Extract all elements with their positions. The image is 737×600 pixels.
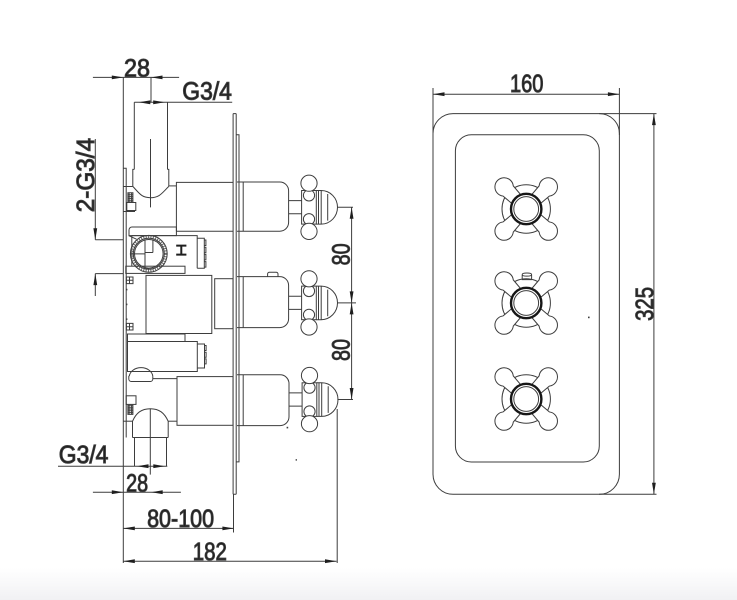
mid body top — [132, 236, 197, 269]
mid connector ridges — [197, 238, 206, 268]
middle handle dome — [316, 286, 337, 320]
dim 80 vertical line — [351, 207, 353, 399]
mid bracket box — [129, 227, 176, 236]
valve circle slot — [130, 240, 153, 269]
bracket A1 — [127, 203, 136, 211]
circle corner seam — [129, 236, 137, 240]
bolt B1 — [126, 277, 133, 284]
top handle ball lower — [301, 223, 317, 239]
bottom outlet pipe — [135, 438, 167, 467]
handle bottom — [491, 364, 561, 434]
top handle stem — [289, 201, 302, 214]
svg-text:80: 80 — [328, 243, 356, 265]
bottom handle ball inner upper — [304, 382, 315, 393]
dim G3/4 top line — [134, 101, 232, 103]
lower unit box — [128, 342, 198, 372]
dome bracket — [129, 368, 153, 382]
top handle dome — [316, 191, 337, 225]
wall line — [122, 77, 124, 563]
wall inner line — [123, 168, 126, 437]
handle middle — [491, 268, 561, 338]
top cartridge inner block — [176, 182, 233, 231]
dim 80-100 line — [123, 494, 234, 532]
middle handle ball inner upper — [303, 285, 314, 296]
valve circle ring — [133, 238, 164, 269]
dome bracket link — [153, 378, 177, 380]
svg-text:160: 160 — [510, 70, 544, 98]
dim 28 bottom line — [93, 491, 181, 493]
bottom elbow bell — [133, 409, 169, 438]
H marking — [176, 246, 186, 255]
middle tab — [268, 272, 278, 276]
top pipe centerline — [150, 77, 153, 207]
top elbow — [133, 169, 169, 197]
faceplate inner panel — [455, 135, 599, 462]
svg-text:80-100: 80-100 — [147, 505, 214, 533]
valve circle hatch band — [132, 237, 166, 271]
middle big box — [146, 275, 212, 333]
top cartridge body — [237, 182, 289, 231]
bottom body seam — [242, 375, 244, 426]
middle handle ball upper — [301, 271, 317, 287]
bottom handle ball upper — [301, 367, 317, 383]
bottom handle ball lower — [301, 416, 317, 432]
valve circle ring inner — [135, 240, 164, 269]
middle handle plate — [302, 286, 317, 320]
dim 325 line — [599, 114, 657, 495]
top handle plate — [302, 191, 317, 225]
svg-text:28: 28 — [126, 469, 148, 497]
dim 2-G3/4 leader — [95, 139, 123, 296]
svg-text:325: 325 — [631, 287, 659, 321]
bottom handle dome — [317, 383, 338, 417]
bottom elbow wall stub — [123, 420, 132, 422]
middle handle ball inner lower — [303, 309, 314, 320]
svg-text:G3/4: G3/4 — [59, 441, 109, 469]
dim G3/4 bottom leader — [58, 465, 167, 467]
bottom gray band — [0, 568, 737, 600]
svg-text:182: 182 — [193, 538, 227, 566]
top handle ball inner lower — [303, 214, 314, 225]
svg-text:28: 28 — [124, 55, 150, 83]
dim 80 ticks — [337, 207, 356, 399]
bottom block — [177, 377, 233, 426]
top inlet pipe — [134, 102, 167, 169]
bottom handle stem — [289, 393, 302, 406]
bolt B2 — [126, 323, 133, 330]
middle handle tab front — [522, 273, 531, 280]
band below circle — [126, 266, 185, 273]
top cartridge body seam — [242, 182, 244, 231]
middle body seam — [242, 277, 244, 328]
top elbow wall stub — [123, 186, 133, 188]
dim 28 top line — [93, 76, 179, 78]
faceplate side lines — [233, 114, 236, 495]
svg-text:80: 80 — [328, 339, 356, 361]
handle top — [491, 174, 561, 244]
bottom elbow block stub — [168, 420, 177, 422]
bottom handle ball inner lower — [304, 406, 315, 417]
middle handle ball lower — [301, 319, 317, 335]
wall dots — [126, 289, 590, 461]
faceplate outer — [433, 114, 619, 495]
middle cartridge body — [237, 277, 289, 328]
svg-text:G3/4: G3/4 — [182, 78, 232, 106]
middle handle stem — [289, 296, 302, 309]
bolt A1 — [128, 193, 133, 202]
bottom pipe centerline — [149, 409, 151, 475]
faceplate panel side line — [236, 135, 239, 462]
dim 160 line — [433, 88, 619, 135]
bottom handle plate — [302, 383, 317, 417]
bolt C1 — [128, 405, 133, 414]
bottom cartridge body — [237, 375, 289, 426]
svg-text:2-G3/4: 2-G3/4 — [72, 138, 100, 212]
valve circle outer — [130, 235, 167, 272]
band above lower unit — [128, 334, 186, 342]
lower connector ridges — [197, 344, 206, 368]
top handle ball upper — [301, 175, 317, 191]
bracket C1 — [126, 396, 136, 405]
top elbow outlet stub — [169, 185, 177, 187]
dim 182 line — [123, 409, 337, 563]
middle cap rect — [215, 279, 233, 329]
top handle ball inner upper — [303, 190, 314, 201]
